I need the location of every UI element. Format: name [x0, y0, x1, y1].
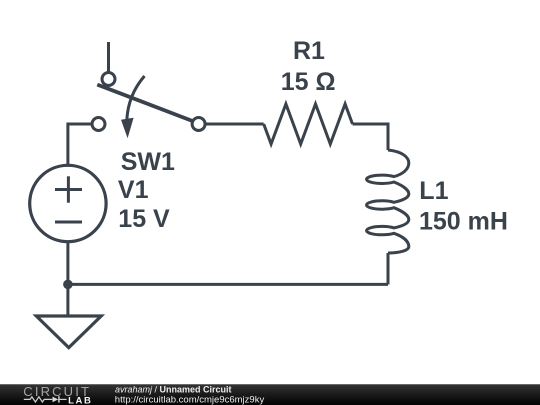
wire: resistor to inductor top	[353, 124, 389, 150]
wire: source bottom to junction	[66, 242, 69, 285]
svg-text:http://circuitlab.com/cmje9c6m: http://circuitlab.com/cmje9c6mjz9ky	[115, 394, 265, 405]
switch SW1 top terminal pin	[102, 73, 115, 86]
svg-text:R1: R1	[293, 37, 325, 65]
wire: switch left to source top	[68, 124, 92, 165]
switch SW1	[92, 42, 205, 138]
svg-text:15 Ω: 15 Ω	[281, 68, 336, 96]
svg-text:avrahamj / Unnamed Circuit: avrahamj / Unnamed Circuit	[115, 384, 232, 394]
svg-text:LAB: LAB	[68, 395, 92, 405]
wire: bottom rail	[68, 283, 388, 286]
wire: junction to ground	[66, 284, 69, 316]
svg-text:L1: L1	[419, 177, 448, 205]
switch SW1 actuator arrow	[127, 76, 145, 121]
wire: switch to resistor	[205, 123, 264, 126]
svg-text:V1: V1	[118, 176, 149, 204]
switch SW1 bar	[97, 85, 192, 121]
switch SW1 right terminal pin	[192, 118, 205, 131]
switch SW1 left terminal pin	[92, 118, 105, 131]
resistor R1	[264, 104, 353, 144]
wire: inductor bottom to corner	[387, 253, 390, 284]
svg-text:15 V: 15 V	[118, 205, 170, 233]
inductor L1	[367, 150, 409, 253]
logo CIRCUIT LAB	[23, 384, 92, 405]
footer bar	[0, 384, 540, 405]
svg-text:150 mH: 150 mH	[419, 208, 508, 236]
node: junction dot	[63, 280, 73, 290]
voltage source V1	[30, 165, 106, 241]
wire: SW1 top stub	[107, 42, 110, 72]
ground	[36, 316, 101, 348]
svg-text:SW1: SW1	[121, 148, 175, 176]
